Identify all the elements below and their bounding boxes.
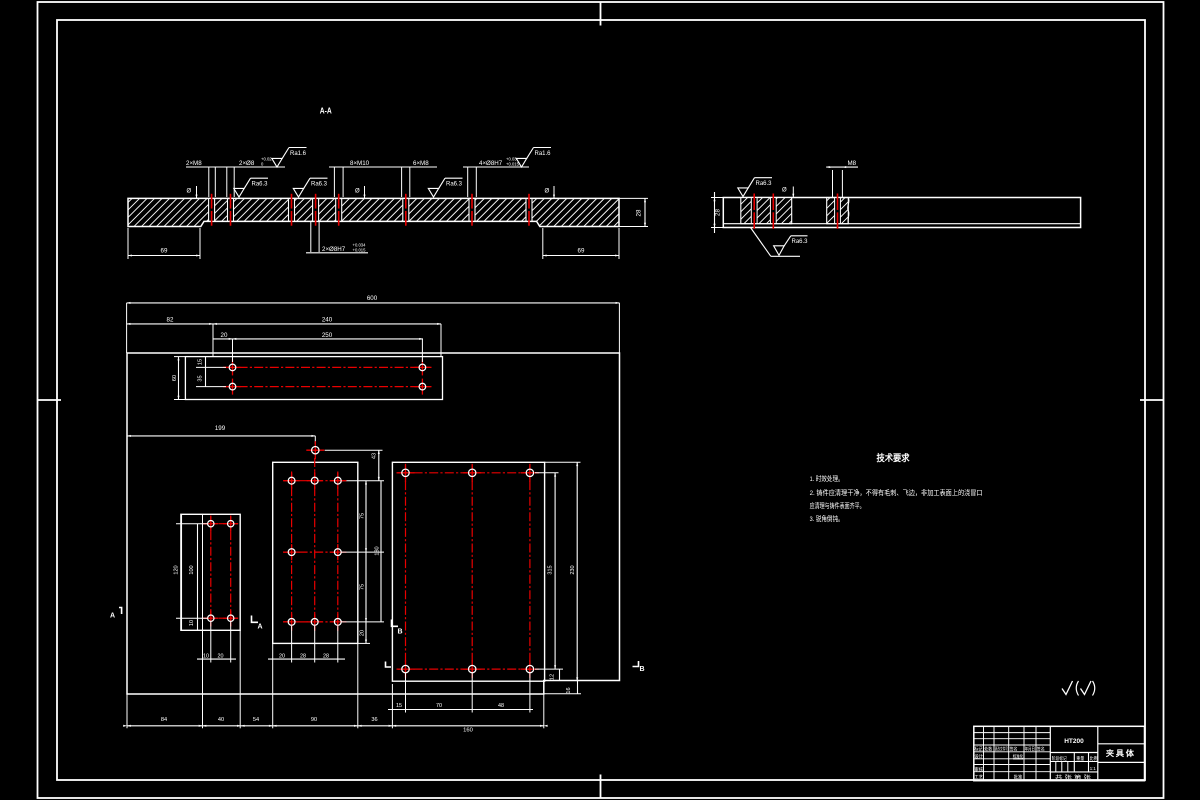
svg-text:54: 54 [253,717,259,723]
section B-B hatch block left [741,198,791,223]
dimension 100 and 10 left of small boss [197,524,199,631]
lone hole [306,449,324,451]
svg-text:比例: 比例 [1090,755,1098,762]
section A-A body outline with hatch [128,198,619,226]
svg-text:工艺: 工艺 [975,774,984,780]
svg-text:15: 15 [198,359,204,365]
tapped hole 3 in section A-A [289,199,295,220]
svg-text:Ø: Ø [782,188,787,194]
svg-text:28: 28 [323,654,329,660]
dimension 69 left end [127,228,129,259]
plan internal vertical line b [239,630,241,728]
svg-text:15: 15 [396,703,402,709]
hole 2 in section B-B [770,198,776,223]
svg-text:160: 160 [463,728,473,734]
small boss hole 210.8,618.2 [203,617,218,619]
svg-text:60: 60 [172,375,178,381]
dimension 230 right of big boss [545,461,581,463]
svg-text:315: 315 [548,565,554,574]
middle boss hole 337.8,480.7 [330,480,346,482]
callout 2xM8 [186,166,236,168]
dimension M8 on B-B [832,170,834,198]
svg-text:69: 69 [578,248,585,255]
section B-B hatch block right with break line [827,198,849,224]
svg-text:69: 69 [161,248,168,255]
surface finish Ra6.3 third [428,188,438,197]
svg-text:共 张 第 张: 共 张 第 张 [1055,774,1091,781]
svg-text:43: 43 [372,453,378,459]
slot center line lower [223,386,432,388]
svg-text:A: A [110,613,115,620]
right centering tick [1140,399,1164,401]
svg-text:70: 70 [436,703,442,709]
svg-text:48: 48 [498,703,504,709]
small boss hole 230.7,618.2 [223,617,238,619]
section mark B bottom left of big boss [386,662,392,668]
svg-text:84: 84 [161,717,167,723]
slot hole at 422.4,386.6 [414,386,430,388]
surface finish Ra1.6 first [272,158,282,167]
svg-text:75: 75 [360,584,366,590]
svg-text:HT200: HT200 [1064,738,1084,745]
section mark A left [119,608,122,615]
surface finish Ra6.3 second [293,188,303,197]
dimension 600 [127,302,620,304]
slot hole at 232.5,367.4 [225,366,241,368]
dimension 12 right of big boss [559,669,561,680]
dimension 120 left of small boss [176,523,207,525]
middle boss hole 337.8,552.1 [330,551,346,553]
svg-text:90: 90 [311,717,317,723]
svg-text:+0.015: +0.015 [506,162,520,167]
svg-text:B: B [640,666,645,673]
svg-text:应清理与铸件表面齐平。: 应清理与铸件表面齐平。 [810,501,865,510]
dimension chain 75 180 75 20 right of middle boss [365,481,367,644]
dimension 43 [325,449,383,451]
svg-text:199: 199 [215,425,226,432]
dimension 315 right of big boss [535,472,559,474]
svg-text:技术要求: 技术要求 [877,452,911,463]
svg-text:230: 230 [570,565,576,574]
svg-text:10: 10 [189,620,195,626]
svg-text:Ø: Ø [545,189,550,195]
svg-text:更改文件号: 更改文件号 [995,745,1008,752]
svg-text:设计: 设计 [975,753,984,760]
svg-text:20: 20 [218,654,224,660]
left centering tick [38,399,62,401]
tapped hole 2 in section A-A [228,199,234,220]
section B-B outline [723,198,1080,228]
hole 1 in section B-B [751,198,757,223]
surface finish Ra6.3 top of B-B [738,188,748,197]
svg-text:20: 20 [221,332,228,339]
hole 3 in section B-B [835,198,841,223]
svg-text:6×M8: 6×M8 [413,160,429,167]
title block middle horizontals [1050,752,1098,754]
tapped hole 7 in section A-A [469,199,475,220]
svg-text:B: B [398,629,403,636]
middle boss hole 314.7,480.7 [307,480,323,482]
callout 8xM10 [329,166,409,168]
callout 6xM8 [400,166,437,168]
slot center line upper [223,366,432,368]
callout 4xPhi8H7 with tolerance [463,166,529,168]
small boss vertical center lines [210,516,212,627]
dimension 15 and 35 left of slot [196,366,226,368]
svg-text:2×M8: 2×M8 [186,160,202,167]
middle boss hole 291.6,480.7 [284,480,300,482]
surface finish Ra6.3 bottom of B-B with leader [751,228,771,257]
title block outer frame [974,726,1145,780]
middle boss outline [273,462,358,643]
section mark A right of small boss [252,616,259,623]
slot hole at 422.4,367.4 [414,366,430,368]
svg-text:Ra6.3: Ra6.3 [252,182,269,188]
svg-text:A-A: A-A [320,106,332,116]
tapped hole 4 in section A-A [313,199,319,220]
dimension 82 and 240 [127,323,441,325]
slot boss outline [185,357,442,400]
tapped hole 5 in section A-A [336,199,342,220]
dimension 16 right of big boss [577,681,579,694]
tapped hole 8 in section A-A [526,199,532,220]
plan internal vertical line a [202,514,204,728]
svg-text:36: 36 [371,717,377,723]
svg-text:28: 28 [715,209,722,216]
svg-text:签名: 签名 [1037,745,1045,752]
section mark B right [633,661,639,667]
dimension 2xPhi8H7 below [310,222,312,252]
top centering tick [600,2,602,26]
svg-text:600: 600 [367,295,378,302]
svg-text:2×Ø8: 2×Ø8 [239,160,255,167]
section mark B left of big boss [392,620,399,627]
svg-text:Ra6.3: Ra6.3 [446,182,463,188]
svg-text:35: 35 [198,375,204,381]
svg-text:批准: 批准 [1014,773,1023,780]
small boss horizontal center lines [203,523,238,525]
big boss hole 529.9,669.1 [521,668,539,670]
big boss hole 472.2,472.8 [463,472,481,474]
big boss outline [392,462,544,681]
svg-text:1. 时效处理。: 1. 时效处理。 [810,474,844,483]
title block right horizontals [1098,743,1145,745]
svg-text:2×Ø8H7: 2×Ø8H7 [322,246,346,253]
svg-text:Ra6.3: Ra6.3 [792,239,809,245]
svg-text:处数: 处数 [984,745,993,752]
tapped hole 1 in section A-A [209,199,215,220]
dimension 199 to lone hole [127,435,315,437]
title block left table horizontals [974,732,1051,734]
middle boss hole 337.8,621.9 [330,621,346,623]
svg-text:A: A [258,624,263,631]
svg-text:180: 180 [375,546,381,555]
svg-text:120: 120 [174,565,180,574]
dimension chain 84 40 54 90 36 160 bottom [127,725,544,727]
big boss horizontal center lines [398,472,538,474]
plan internal vertical line d [357,643,359,728]
svg-text:标记: 标记 [975,745,984,752]
svg-text:Ra1.6: Ra1.6 [535,151,552,157]
big boss hole 405.5,669.1 [397,668,415,670]
small boss outline [181,514,240,630]
svg-text:20: 20 [279,654,285,660]
svg-text:16: 16 [566,687,572,693]
general roughness note check and parentheses [1062,681,1073,695]
small boss hole 210.8,523.7 [203,523,218,525]
plan internal vertical line c [272,643,274,728]
title block middle verticals [1073,753,1075,772]
svg-text:重量: 重量 [1076,755,1084,762]
big boss hole 405.5,472.8 [397,472,415,474]
svg-text:年月日: 年月日 [1025,745,1035,752]
slot hole at 232.5,386.6 [225,386,241,388]
svg-text:28: 28 [300,654,306,660]
tapped hole 6 in section A-A [403,199,409,220]
svg-text:M8: M8 [848,160,857,167]
dimension 20 and 250 [213,338,423,340]
plan view outline [127,353,620,694]
section B-B inner step line [723,223,1080,225]
svg-text:2. 铸件应清理干净，不得有毛刺、飞边，非加工表面上的浇冒口: 2. 铸件应清理干净，不得有毛刺、飞边，非加工表面上的浇冒口 [810,488,983,497]
middle boss hole 314.7,621.9 [307,621,323,623]
middle boss hole 291.6,621.9 [284,621,300,623]
surface finish Ra6.3 first [234,188,244,197]
svg-text:100: 100 [189,565,195,574]
title block left table verticals [983,726,985,780]
svg-text:75: 75 [360,513,366,519]
svg-text:审核: 审核 [975,766,984,773]
surface finish Ra1.6 second [516,158,526,167]
svg-text:8×M10: 8×M10 [350,160,370,167]
middle boss hole 291.6,552.1 [284,551,300,553]
svg-text:250: 250 [322,332,333,339]
svg-text:签名: 签名 [1010,745,1018,752]
dimension 28 right height [619,197,648,199]
dimension 69 right end [542,228,544,259]
svg-text:Ra6.3: Ra6.3 [756,181,773,187]
small boss hole 230.7,523.7 [223,523,238,525]
callout 2xPhi8 with tolerance [223,166,285,168]
svg-text:4×Ø8H7: 4×Ø8H7 [479,160,503,167]
svg-text:Ra6.3: Ra6.3 [311,182,328,188]
big boss hole 472.2,669.1 [463,668,481,670]
svg-text:+0.015: +0.015 [353,248,367,253]
svg-text:阶段标记: 阶段标记 [1052,755,1067,762]
dimension 28 left height of B-B [711,197,725,199]
svg-text:10: 10 [203,654,209,660]
svg-text:Ra1.6: Ra1.6 [290,151,307,157]
svg-text:12: 12 [550,674,556,680]
svg-text:Ø: Ø [355,189,360,195]
svg-text:1:1: 1:1 [1090,766,1096,772]
bottom centering tick [600,775,602,799]
svg-text:40: 40 [218,717,224,723]
svg-text:夹具体: 夹具体 [1106,748,1136,758]
middle boss horizontal center lines [283,480,347,482]
svg-text:3. 锐角倒钝。: 3. 锐角倒钝。 [810,514,844,523]
big boss hole 529.9,472.8 [521,472,539,474]
svg-text:20: 20 [360,630,366,636]
svg-text:240: 240 [322,317,333,324]
svg-text:28: 28 [636,209,643,216]
middle boss vertical center lines [291,472,293,632]
dimension 10 20 below small boss [197,658,236,660]
dimension 20 28 28 below middle boss [268,658,345,660]
svg-text:Ø: Ø [187,189,192,195]
dimension 60 left of slot [174,356,185,358]
svg-text:82: 82 [167,317,174,324]
dimension 15 70 48 below big boss [388,709,533,711]
big boss vertical center lines [405,466,407,677]
